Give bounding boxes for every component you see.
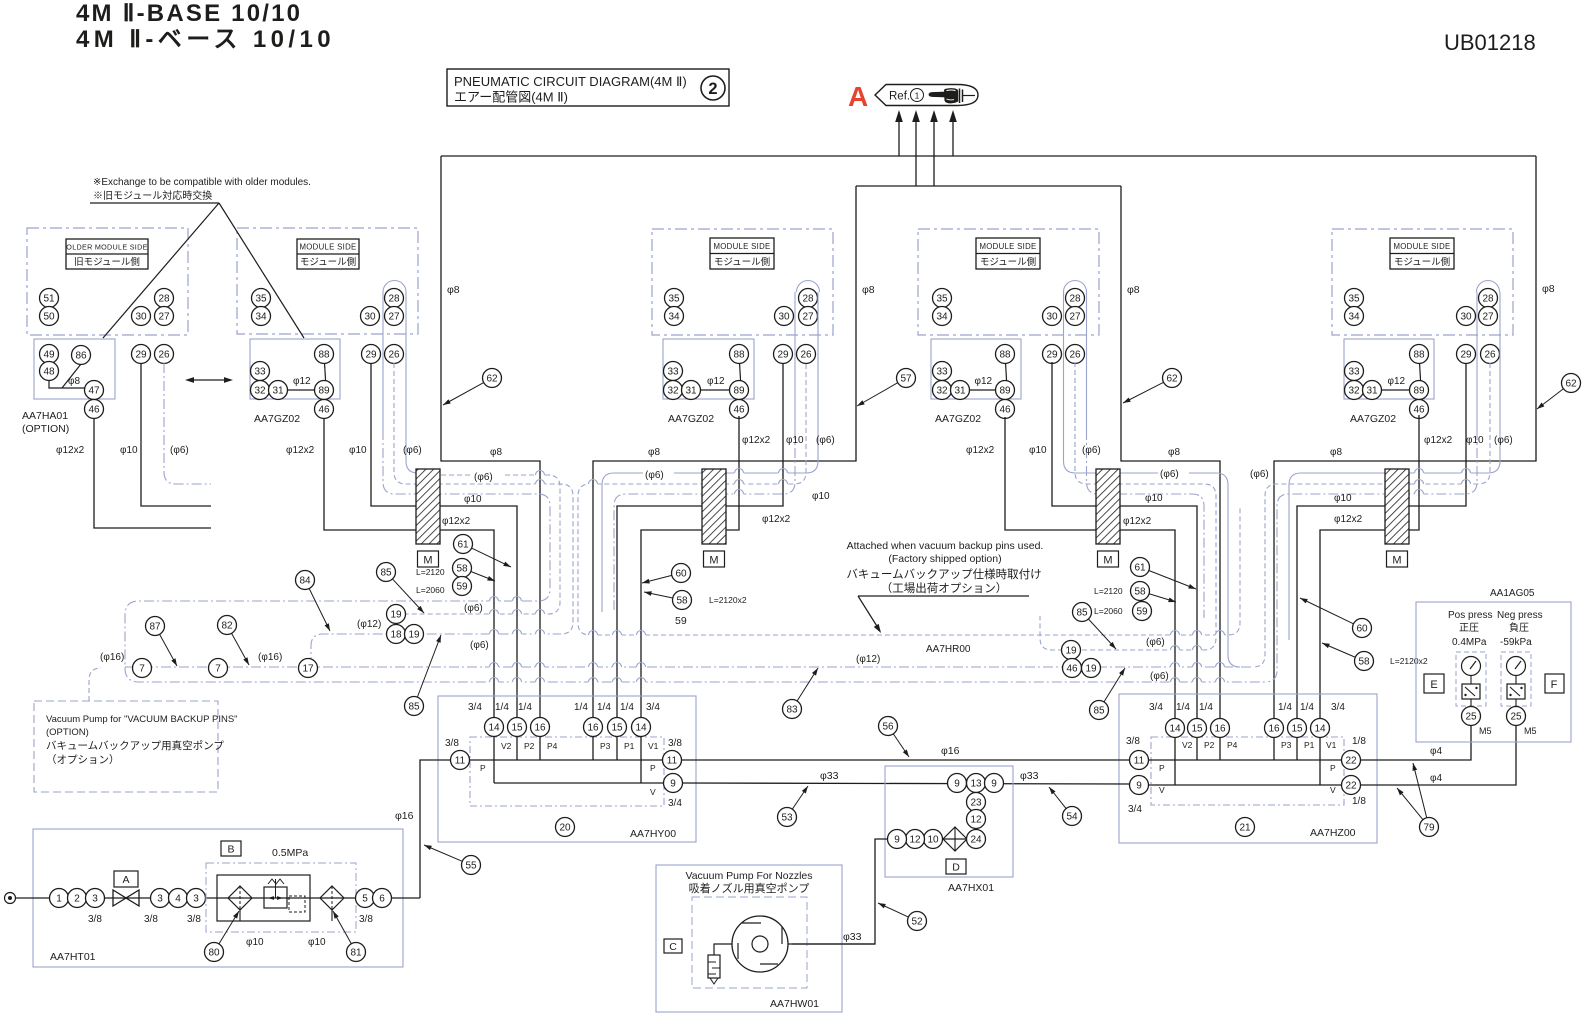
label F box <box>1545 674 1564 693</box>
svg-text:58: 58 <box>456 564 468 575</box>
connector block AA7GZ02 <box>663 339 754 399</box>
svg-text:L=2120x2: L=2120x2 <box>1390 656 1428 666</box>
wires ports AA7HY00 <box>493 727 495 783</box>
svg-text:φ12x2: φ12x2 <box>1424 435 1453 446</box>
label M box <box>704 551 725 567</box>
svg-text:12: 12 <box>970 815 982 826</box>
tube module4 capsule left / row494-4 / riser to row682 <box>1476 292 1478 430</box>
svg-text:3/4: 3/4 <box>468 702 482 713</box>
svg-text:(φ6): (φ6) <box>1494 435 1513 446</box>
node 89 <box>996 381 1015 400</box>
svg-text:34: 34 <box>255 312 267 323</box>
svg-text:φ12x2: φ12x2 <box>966 445 995 456</box>
svg-text:旧モジュール側: 旧モジュール側 <box>74 256 140 268</box>
svg-text:(OPTION): (OPTION) <box>46 727 89 738</box>
svg-text:φ4: φ4 <box>1430 773 1442 784</box>
wire riser module4 phi8 <box>1274 156 1536 728</box>
svg-text:59: 59 <box>675 615 687 627</box>
node 62 m1 <box>483 369 502 388</box>
wire P bus AA7HZ00 <box>1139 759 1351 761</box>
FR unit dashed box <box>206 863 356 932</box>
wire module3 46 phi12x2 <box>1005 417 1175 728</box>
node 85 a <box>377 563 396 582</box>
svg-text:φ12: φ12 <box>293 376 311 387</box>
svg-text:83: 83 <box>786 705 798 716</box>
wire module2 46 phi12x2 <box>641 416 739 727</box>
capsule tube outline around 28/27 <box>1477 281 1500 293</box>
svg-text:φ16: φ16 <box>395 810 414 822</box>
svg-text:1/4: 1/4 <box>1176 702 1190 713</box>
tube option pump to phi16 row <box>89 668 101 701</box>
wire V bus AA7HZ00 <box>1139 784 1351 786</box>
node 1 <box>50 889 69 908</box>
svg-text:16: 16 <box>587 723 599 734</box>
svg-text:7: 7 <box>215 664 221 675</box>
node 27 <box>385 307 404 326</box>
svg-text:(φ6): (φ6) <box>1082 445 1101 456</box>
svg-text:φ8: φ8 <box>1542 283 1555 295</box>
svg-text:V: V <box>1330 785 1336 795</box>
wire phi4 to gauges <box>1361 726 1471 760</box>
svg-text:12: 12 <box>909 835 921 846</box>
node 11 right <box>663 751 682 770</box>
node 31 <box>682 381 701 400</box>
node 3 <box>86 889 105 908</box>
node 46 row <box>1063 659 1082 678</box>
hand valve A <box>113 890 126 906</box>
node 15 <box>608 718 627 737</box>
pressure gauge with switch <box>1456 652 1486 706</box>
svg-text:(φ6): (φ6) <box>403 445 422 456</box>
svg-text:49: 49 <box>43 350 55 361</box>
node 85 b <box>405 697 424 716</box>
wire riser module3 phi8 <box>1121 186 1220 728</box>
svg-text:AA7GZ02: AA7GZ02 <box>668 413 714 425</box>
wire module1L 46 stub <box>94 418 211 528</box>
node 26 <box>1066 345 1085 364</box>
svg-text:1/4: 1/4 <box>1278 702 1292 713</box>
svg-text:L=2120x2: L=2120x2 <box>709 595 747 605</box>
node 19 d <box>1082 659 1101 678</box>
svg-text:16: 16 <box>1214 724 1226 735</box>
node 62 m4 <box>1562 374 1581 393</box>
older module dashed boundary box <box>27 228 188 335</box>
title block PNEUMATIC CIRCUIT DIAGRAM <box>447 69 729 106</box>
svg-text:1/4: 1/4 <box>1199 702 1213 713</box>
svg-text:1/4: 1/4 <box>518 702 532 713</box>
svg-text:エアー配管図(4M Ⅱ): エアー配管図(4M Ⅱ) <box>454 90 568 105</box>
node 46 <box>315 400 334 419</box>
svg-text:11: 11 <box>455 756 466 767</box>
node 89 <box>730 381 749 400</box>
tube module3 capsule right / row494-3 <box>1086 292 1088 430</box>
node 34 <box>933 307 952 326</box>
check valve diamond <box>943 827 967 851</box>
capsule tube outline around 28/27 <box>1064 281 1087 293</box>
svg-text:AA7GZ02: AA7GZ02 <box>254 413 300 425</box>
node 16 <box>1265 719 1284 738</box>
svg-text:AA7HA01: AA7HA01 <box>22 410 68 422</box>
node 31 <box>951 381 970 400</box>
node 30 <box>1457 307 1476 326</box>
svg-text:Vacuum Pump For Nozzles: Vacuum Pump For Nozzles <box>685 870 812 882</box>
node 30 <box>361 307 380 326</box>
wire V bus AA7HY00 <box>494 782 673 784</box>
svg-text:MODULE SIDE: MODULE SIDE <box>299 243 356 252</box>
svg-text:30: 30 <box>1460 312 1472 323</box>
node 46 <box>85 400 104 419</box>
node 2 <box>68 889 87 908</box>
node 84 <box>296 571 315 590</box>
node 35 <box>252 289 271 308</box>
label A box <box>114 871 138 887</box>
svg-text:AA7GZ02: AA7GZ02 <box>935 413 981 425</box>
wire riser module2 phi8 <box>593 186 856 727</box>
node 30 <box>132 307 151 326</box>
svg-text:Ref.: Ref. <box>889 91 910 103</box>
svg-text:P4: P4 <box>1227 740 1238 750</box>
svg-text:V1: V1 <box>648 741 659 751</box>
node 12 <box>906 830 925 849</box>
svg-text:25: 25 <box>1465 712 1477 723</box>
connector block AA7GZ02 <box>250 339 340 399</box>
node 34 <box>665 307 684 326</box>
svg-text:52: 52 <box>911 917 923 928</box>
svg-text:バキュームバックアップ仕様時取付け: バキュームバックアップ仕様時取付け <box>846 567 1041 581</box>
svg-text:60: 60 <box>675 569 687 580</box>
svg-text:φ10: φ10 <box>464 494 482 505</box>
svg-text:AA7HT01: AA7HT01 <box>50 951 96 963</box>
svg-text:20: 20 <box>559 823 571 834</box>
svg-text:29: 29 <box>1460 350 1472 361</box>
wire main supply <box>15 897 420 899</box>
node 27 <box>799 307 818 326</box>
tube module3 capsule left / row473-3 / riser to row667 <box>1064 292 1241 667</box>
svg-text:15: 15 <box>1191 724 1203 735</box>
node 60 mid <box>672 564 691 583</box>
svg-text:φ16: φ16 <box>941 745 960 757</box>
svg-text:34: 34 <box>1348 312 1360 323</box>
tube module1L 26 stub (phi6) <box>164 363 211 484</box>
svg-text:φ33: φ33 <box>820 770 839 782</box>
svg-text:11: 11 <box>1134 756 1145 767</box>
svg-text:Pos press: Pos press <box>1448 610 1492 621</box>
node 27 <box>1066 307 1085 326</box>
svg-text:28: 28 <box>388 294 400 305</box>
svg-text:モジュール側: モジュール側 <box>714 256 770 268</box>
svg-text:φ10: φ10 <box>308 937 326 948</box>
svg-text:1/4: 1/4 <box>597 702 611 713</box>
svg-text:23: 23 <box>970 798 982 809</box>
svg-text:P4: P4 <box>547 741 558 751</box>
svg-text:V: V <box>650 787 656 797</box>
wire to pump <box>792 839 888 944</box>
svg-text:24: 24 <box>970 835 982 846</box>
svg-text:27: 27 <box>1069 312 1081 323</box>
node 32 <box>1345 381 1364 400</box>
pressure gauge with switch <box>1501 652 1531 706</box>
svg-text:88: 88 <box>733 350 745 361</box>
manifold AA7HY00 inner dashed <box>470 737 664 806</box>
svg-text:9: 9 <box>1136 781 1142 792</box>
node 88 <box>730 345 749 364</box>
svg-text:10: 10 <box>927 835 939 846</box>
svg-text:87: 87 <box>149 622 161 633</box>
svg-text:26: 26 <box>1069 350 1081 361</box>
svg-text:3: 3 <box>157 894 163 905</box>
svg-text:31: 31 <box>954 386 966 397</box>
wire phi12 inside AA7GZ02 <box>1372 389 1419 391</box>
node 16 <box>584 718 603 737</box>
svg-text:46: 46 <box>318 405 330 416</box>
node 59 left <box>453 577 472 596</box>
svg-text:62: 62 <box>486 374 498 385</box>
node 16 <box>531 718 550 737</box>
tube module2 capsule left / row494-2 <box>794 292 796 430</box>
node 85 d <box>1090 701 1109 720</box>
svg-text:(φ6): (φ6) <box>1150 671 1169 682</box>
wire 13 down <box>975 793 977 830</box>
module 1R dashed boundary box <box>237 228 418 334</box>
svg-text:M: M <box>1103 555 1112 567</box>
node 88 <box>996 345 1015 364</box>
svg-text:9: 9 <box>670 779 676 790</box>
svg-text:46: 46 <box>1066 664 1078 675</box>
svg-text:19: 19 <box>408 630 420 641</box>
node 14 <box>1166 719 1185 738</box>
svg-text:M5: M5 <box>1479 726 1492 736</box>
label D box <box>946 859 966 874</box>
svg-text:P: P <box>480 763 486 773</box>
svg-text:φ8: φ8 <box>1330 447 1342 458</box>
node 82 <box>218 616 237 635</box>
node 61 right <box>1131 558 1150 577</box>
pump circle <box>732 916 788 972</box>
node 19 b <box>405 625 424 644</box>
reference bubble Ref.1 with pointing hand <box>875 85 978 106</box>
svg-text:33: 33 <box>1348 367 1360 378</box>
svg-text:3/4: 3/4 <box>1331 702 1345 713</box>
node 24 <box>967 830 986 849</box>
node 19 a <box>387 605 406 624</box>
wire phi12 inside AA7GZ02 <box>691 389 739 391</box>
svg-text:φ8: φ8 <box>648 447 660 458</box>
node 27 <box>1479 307 1498 326</box>
node 81 <box>347 943 366 962</box>
label M box <box>1098 551 1119 567</box>
wire module4 29 phi10 <box>1297 363 1466 728</box>
node 33 <box>933 362 952 381</box>
svg-text:(φ16): (φ16) <box>258 652 282 663</box>
svg-text:AA1AG05: AA1AG05 <box>1490 588 1535 599</box>
label M box <box>1387 551 1408 567</box>
label B box <box>221 841 241 856</box>
module 2 dashed boundary box <box>652 229 833 335</box>
node 26 <box>385 345 404 364</box>
wire top bus inner <box>856 185 1121 187</box>
node 15 <box>508 718 527 737</box>
svg-text:L=2060: L=2060 <box>1094 606 1123 616</box>
wire module1R 46 phi12x2 <box>324 418 494 727</box>
svg-text:30: 30 <box>778 312 790 323</box>
node 5 <box>356 889 375 908</box>
node 21 <box>1236 818 1255 837</box>
capsule tube outline around 28/27 <box>797 281 820 293</box>
svg-text:30: 30 <box>1046 312 1058 323</box>
svg-text:46: 46 <box>88 405 100 416</box>
bulkhead coupler M (hatched) <box>416 469 440 544</box>
node 30 <box>775 307 794 326</box>
muffler <box>714 944 732 955</box>
node 9 <box>1130 776 1149 795</box>
svg-text:11: 11 <box>667 756 678 767</box>
svg-text:φ12x2: φ12x2 <box>1123 516 1152 527</box>
node 28 <box>1066 289 1085 308</box>
svg-text:88: 88 <box>1413 350 1425 361</box>
svg-text:MODULE SIDE: MODULE SIDE <box>979 242 1036 251</box>
svg-text:φ12x2: φ12x2 <box>1334 514 1363 525</box>
tube long row phi16 y667 <box>125 666 1253 668</box>
vacuum pump for nozzles box <box>656 865 842 1012</box>
svg-text:(φ6): (φ6) <box>474 472 493 483</box>
svg-text:φ4: φ4 <box>1430 746 1442 757</box>
node 89 <box>1410 381 1429 400</box>
label C box <box>664 939 682 953</box>
svg-text:φ8: φ8 <box>1168 447 1180 458</box>
wire module1R 29 phi10 <box>371 363 517 727</box>
node 52 <box>908 912 927 931</box>
node 29 <box>774 345 793 364</box>
svg-text:29: 29 <box>135 350 147 361</box>
svg-text:28: 28 <box>1482 294 1494 305</box>
svg-text:4M Ⅱ-BASE 10/10: 4M Ⅱ-BASE 10/10 <box>76 0 302 27</box>
node 29 <box>362 345 381 364</box>
svg-text:56: 56 <box>882 722 894 733</box>
tube module1R capsule left / row494 / row601 run <box>382 292 384 430</box>
svg-text:82: 82 <box>221 621 233 632</box>
svg-text:1/4: 1/4 <box>620 702 634 713</box>
node 54 <box>1063 807 1082 826</box>
tube module1R 26 / row484 / merge row634 <box>394 363 573 634</box>
svg-text:62: 62 <box>1565 379 1577 390</box>
svg-text:φ8: φ8 <box>447 284 460 296</box>
supply port symbol <box>5 893 16 904</box>
node 28 <box>155 289 174 308</box>
node 7 a <box>133 659 152 678</box>
node 46 <box>1410 400 1429 419</box>
node 35 <box>1345 289 1364 308</box>
node 32 <box>251 381 270 400</box>
svg-text:L=2120: L=2120 <box>416 567 445 577</box>
air source unit AA7HT01 box <box>33 829 403 967</box>
svg-text:13: 13 <box>970 779 982 790</box>
svg-text:88: 88 <box>999 350 1011 361</box>
node 3b <box>151 889 170 908</box>
svg-text:(φ6): (φ6) <box>1250 469 1269 480</box>
svg-text:AA7HW01: AA7HW01 <box>770 998 819 1010</box>
bulkhead coupler M (hatched) <box>1385 469 1409 544</box>
svg-text:26: 26 <box>800 350 812 361</box>
svg-text:28: 28 <box>158 294 170 305</box>
svg-text:61: 61 <box>457 540 469 551</box>
svg-text:(φ12): (φ12) <box>856 654 880 665</box>
node 25 a <box>1462 707 1481 726</box>
node 12 <box>967 810 986 829</box>
svg-text:9: 9 <box>954 779 960 790</box>
svg-text:55: 55 <box>465 861 477 872</box>
svg-text:59: 59 <box>1136 607 1148 618</box>
tube module4 26 / row484-4 / riser to row667 <box>1253 363 1490 667</box>
node 86 <box>72 346 91 365</box>
gauge unit AA1AG05 box <box>1416 602 1571 742</box>
older module title box <box>66 239 148 269</box>
svg-text:P: P <box>1159 763 1165 773</box>
svg-text:57: 57 <box>900 374 912 385</box>
svg-text:86: 86 <box>75 351 87 362</box>
svg-text:4: 4 <box>175 894 181 905</box>
svg-text:14: 14 <box>1314 724 1326 735</box>
svg-text:M: M <box>709 555 718 567</box>
svg-text:(φ6): (φ6) <box>645 470 664 481</box>
svg-text:46: 46 <box>999 405 1011 416</box>
node 31 <box>1363 381 1382 400</box>
svg-text:7: 7 <box>139 664 145 675</box>
node 32 <box>933 381 952 400</box>
svg-text:19: 19 <box>1065 646 1077 657</box>
svg-text:φ10: φ10 <box>1466 435 1484 446</box>
svg-text:E: E <box>1430 679 1437 691</box>
svg-text:61: 61 <box>1134 563 1146 574</box>
svg-text:9: 9 <box>991 779 997 790</box>
wire pump out <box>788 943 875 945</box>
svg-text:3/4: 3/4 <box>668 798 682 809</box>
svg-text:27: 27 <box>158 312 170 323</box>
svg-text:85: 85 <box>408 702 420 713</box>
svg-text:3: 3 <box>92 894 98 905</box>
svg-text:V2: V2 <box>1182 740 1193 750</box>
svg-text:59: 59 <box>456 582 468 593</box>
svg-text:φ8: φ8 <box>1127 284 1140 296</box>
wire inside AA7HA01 <box>49 381 92 388</box>
filter symbol <box>228 886 252 910</box>
svg-text:C: C <box>669 941 677 953</box>
connector block AA7GZ02 <box>931 339 1021 399</box>
wire module4 46 phi12x2 <box>1320 415 1419 728</box>
svg-text:φ12: φ12 <box>1388 376 1406 387</box>
svg-text:(φ6): (φ6) <box>1146 637 1165 648</box>
svg-text:3/8: 3/8 <box>187 914 201 925</box>
node 46 <box>730 400 749 419</box>
wire phi16 P bus long <box>682 759 1129 761</box>
node 26 <box>797 345 816 364</box>
node 88 <box>1410 345 1429 364</box>
svg-text:φ8: φ8 <box>68 376 80 387</box>
svg-text:MODULE SIDE: MODULE SIDE <box>713 242 770 251</box>
svg-text:AA7GZ02: AA7GZ02 <box>1350 413 1396 425</box>
svg-text:3/8: 3/8 <box>668 738 682 749</box>
node 29 <box>1457 345 1476 364</box>
svg-text:32: 32 <box>1348 386 1360 397</box>
vacuum pump for vacuum backup pins option box <box>34 701 218 792</box>
filter symbol 2 <box>320 886 344 910</box>
node 14 <box>1311 719 1330 738</box>
svg-text:17: 17 <box>302 664 314 675</box>
connector block AA7GZ02 <box>1344 339 1434 399</box>
svg-text:φ10: φ10 <box>120 445 138 456</box>
svg-text:P: P <box>650 763 656 773</box>
svg-text:89: 89 <box>999 386 1011 397</box>
svg-text:85: 85 <box>1093 706 1105 717</box>
